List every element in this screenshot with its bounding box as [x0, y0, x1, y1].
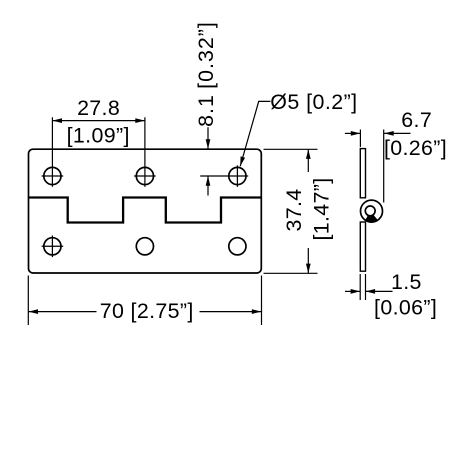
- leader Ø5: [240, 101, 270, 166]
- hole bottom-left: [44, 238, 61, 255]
- knuckle castellation line: [29, 198, 262, 223]
- svg-text:8.1 [0.32”]: 8.1 [0.32”]: [194, 21, 218, 127]
- hole top-middle: [136, 167, 153, 184]
- side view knuckle curl sheet-end wedge: [365, 215, 377, 222]
- hole bottom-middle: [136, 238, 153, 255]
- dimension 1.5 extension lines: [359, 274, 361, 300]
- dimension 70 extension lines: [27, 276, 29, 326]
- dimension 27.8 extension lines: [51, 117, 53, 187]
- dimension 6.7 line: [345, 132, 361, 134]
- crosshair hole top-right vertical: [236, 165, 238, 187]
- dimension 37.4 line: [307, 149, 309, 172]
- svg-text:Ø5 [0.2”]: Ø5 [0.2”]: [270, 90, 357, 114]
- svg-text:1.5: 1.5: [391, 270, 422, 294]
- side view bottom leaf bar: [360, 222, 365, 271]
- svg-text:[0.26”]: [0.26”]: [384, 136, 447, 160]
- hinge plate front view outline: [29, 149, 262, 273]
- side view knuckle inner curl: [365, 206, 375, 216]
- svg-text:37.4: 37.4: [282, 188, 306, 231]
- dimension 1.5 line: [345, 290, 360, 292]
- hole top-right: [229, 167, 246, 184]
- hole bottom-right: [229, 238, 246, 255]
- dimension 37.4 extension lines: [264, 148, 318, 150]
- dimension 8.1: [207, 127, 209, 149]
- crosshair hole top-middle: [134, 175, 156, 177]
- dimension 6.7 extension lines: [359, 130, 361, 148]
- dimension 8.1 reference line through hole top-right: [200, 175, 248, 177]
- svg-text:[1.09”]: [1.09”]: [67, 124, 130, 148]
- dimension 27.8 line: [52, 120, 144, 122]
- dimension 70 line: [28, 311, 96, 313]
- svg-text:70 [2.75”]: 70 [2.75”]: [100, 299, 194, 323]
- hole top-left: [44, 167, 61, 184]
- svg-text:27.8: 27.8: [77, 96, 120, 120]
- crosshair hole top-left: [42, 175, 64, 177]
- crosshair hole bottom-left: [42, 245, 64, 247]
- svg-text:[1.47”]: [1.47”]: [309, 177, 333, 240]
- side view knuckle outer curl: [361, 200, 383, 222]
- svg-text:6.7: 6.7: [401, 108, 432, 132]
- side view top leaf bar: [360, 149, 365, 198]
- svg-text:[0.06”]: [0.06”]: [374, 296, 437, 320]
